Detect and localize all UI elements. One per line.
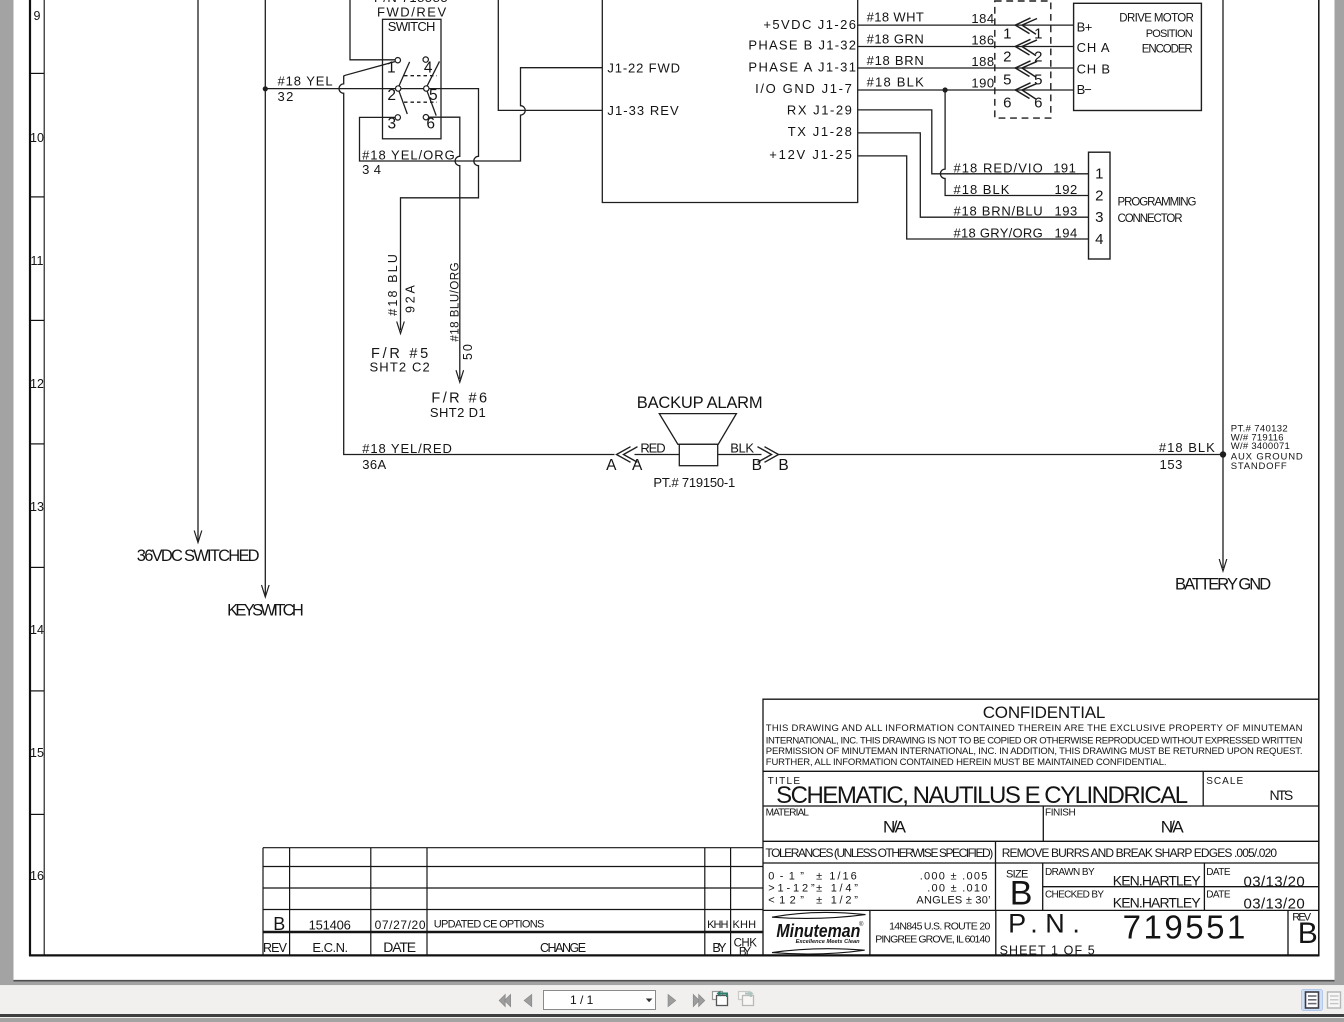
svg-text:BY: BY (712, 941, 727, 955)
svg-text:151406: 151406 (309, 918, 352, 933)
svg-text:1: 1 (1034, 25, 1043, 42)
svg-text:CH B: CH B (1077, 61, 1111, 76)
svg-text:#18 GRY/ORG: #18 GRY/ORG (954, 225, 1044, 240)
svg-text:BLK: BLK (730, 441, 754, 456)
svg-text:188: 188 (971, 54, 994, 69)
svg-text:CH A: CH A (1077, 40, 1110, 55)
svg-text:KEYSWITCH: KEYSWITCH (227, 602, 304, 620)
svg-text:#18 YEL/ORG: #18 YEL/ORG (362, 147, 455, 162)
svg-text:SHEET 1 OF 5: SHEET 1 OF 5 (1000, 943, 1095, 957)
svg-text:CHECKED BY: CHECKED BY (1045, 890, 1104, 901)
svg-text:B: B (752, 457, 763, 474)
svg-text:92A: 92A (404, 284, 418, 312)
svg-text:BATTERY GND: BATTERY GND (1175, 576, 1272, 594)
svg-text:3: 3 (388, 116, 397, 133)
svg-text:153: 153 (1160, 457, 1183, 472)
svg-text:2: 2 (1034, 48, 1043, 65)
svg-text:A: A (606, 457, 617, 474)
svg-text:CONNECTOR: CONNECTOR (1118, 213, 1183, 225)
svg-text:03/13/20: 03/13/20 (1244, 874, 1306, 891)
svg-text:186: 186 (971, 33, 994, 48)
svg-text:FURTHER, ALL INFORMATION CONTA: FURTHER, ALL INFORMATION CONTAINED HEREI… (766, 757, 1167, 768)
svg-text:MATERIAL: MATERIAL (766, 807, 810, 818)
svg-text:191: 191 (1053, 160, 1076, 175)
svg-text:PROGRAMMING: PROGRAMMING (1118, 197, 1197, 209)
svg-text:.00 ± .010: .00 ± .010 (927, 883, 988, 895)
svg-text:B−: B− (1077, 82, 1092, 97)
svg-text:6: 6 (1034, 94, 1043, 111)
svg-text:DATE: DATE (1206, 890, 1231, 901)
svg-text:SHT2 D1: SHT2 D1 (430, 405, 486, 420)
svg-text:+5VDC J1-26: +5VDC J1-26 (763, 17, 856, 32)
svg-text:4: 4 (424, 60, 433, 77)
svg-text:FINISH: FINISH (1045, 807, 1076, 818)
svg-text:Excellence Meets Clean: Excellence Meets Clean (796, 939, 861, 945)
svg-text:B+: B+ (1077, 20, 1093, 35)
svg-text:B: B (1010, 875, 1033, 913)
svg-text:6: 6 (426, 116, 435, 133)
svg-text:CHANGE: CHANGE (540, 941, 586, 955)
svg-text:POSITION: POSITION (1146, 28, 1193, 40)
svg-text:INTERNATIONAL, INC. THIS DRAWI: INTERNATIONAL, INC. THIS DRAWING IS NOT … (766, 735, 1303, 746)
svg-text:KEN.HARTLEY: KEN.HARTLEY (1113, 873, 1202, 889)
svg-text:15: 15 (30, 746, 44, 760)
svg-text:REMOVE BURRS AND BREAK SHARP E: REMOVE BURRS AND BREAK SHARP EDGES .005/… (1002, 846, 1278, 860)
svg-text:N/A: N/A (883, 817, 907, 836)
svg-text:193: 193 (1055, 204, 1078, 219)
svg-text:2: 2 (387, 87, 396, 104)
svg-text:2: 2 (1003, 48, 1012, 65)
svg-text:3: 3 (1095, 209, 1104, 226)
svg-text:6: 6 (1003, 94, 1012, 111)
svg-text:#18 BLK: #18 BLK (1159, 440, 1215, 455)
svg-text:B: B (778, 457, 789, 474)
svg-text:ANGLES ± 30’: ANGLES ± 30’ (916, 894, 991, 906)
svg-text:KHH: KHH (733, 919, 757, 931)
svg-text:E.C.N.: E.C.N. (312, 940, 348, 955)
svg-text:TOLERANCES (UNLESS OTHERWISE S: TOLERANCES (UNLESS OTHERWISE SPECIFIED) (765, 846, 993, 860)
svg-text:DRIVE MOTOR: DRIVE MOTOR (1119, 13, 1194, 25)
svg-text:A: A (632, 457, 643, 474)
svg-text:PERMISSION OF MINUTEMAN INTERN: PERMISSION OF MINUTEMAN INTERNATIONAL, I… (766, 746, 1303, 757)
svg-text:5: 5 (429, 87, 438, 104)
svg-text:J1-33 REV: J1-33 REV (607, 103, 679, 118)
svg-text:#18 BLU: #18 BLU (386, 254, 400, 316)
svg-text:CONFIDENTIAL: CONFIDENTIAL (983, 703, 1106, 722)
svg-text:#18 WHT: #18 WHT (867, 10, 925, 25)
svg-text:190: 190 (971, 76, 994, 91)
svg-text:194: 194 (1055, 225, 1078, 240)
svg-text:#18 BRN/BLU: #18 BRN/BLU (954, 204, 1044, 219)
svg-text:#18 BLK: #18 BLK (867, 74, 925, 89)
svg-text:03/13/20: 03/13/20 (1244, 896, 1306, 913)
svg-text:#18 BLU/ORG: #18 BLU/ORG (450, 262, 462, 342)
svg-text:NTS: NTS (1270, 787, 1294, 803)
svg-text:#18 BRN: #18 BRN (867, 53, 925, 68)
svg-text:Minuteman: Minuteman (776, 921, 860, 941)
svg-text:1: 1 (387, 60, 396, 77)
svg-text:DATE: DATE (383, 939, 416, 955)
svg-text:PT.# 719150-1: PT.# 719150-1 (653, 475, 735, 490)
svg-text:B: B (1298, 917, 1318, 950)
svg-text:14: 14 (30, 623, 44, 637)
svg-text:50: 50 (461, 344, 475, 360)
svg-text:#18 GRN: #18 GRN (867, 31, 925, 46)
svg-text:STANDOFF: STANDOFF (1231, 461, 1287, 472)
svg-text:THIS DRAWING AND ALL INFORMATI: THIS DRAWING AND ALL INFORMATION CONTAIN… (766, 723, 1303, 734)
svg-text:F/R #6: F/R #6 (431, 390, 487, 406)
svg-text:®: ® (859, 921, 864, 928)
svg-text:#18 YEL/RED: #18 YEL/RED (362, 441, 452, 456)
svg-text:DRAWN BY: DRAWN BY (1045, 867, 1095, 878)
svg-text:12: 12 (30, 377, 44, 391)
svg-text:#18 YEL: #18 YEL (278, 74, 333, 89)
svg-text:1: 1 (1095, 166, 1104, 183)
svg-text:W/# 3400071: W/# 3400071 (1231, 441, 1290, 452)
svg-text:+12V J1-25: +12V J1-25 (769, 147, 852, 162)
svg-text:± 1/16: ± 1/16 (816, 871, 857, 883)
svg-text:KHH: KHH (707, 919, 729, 931)
svg-text:5: 5 (1034, 71, 1043, 88)
svg-text:DATE: DATE (1206, 867, 1231, 878)
svg-text:REV: REV (263, 941, 288, 955)
svg-text:B: B (273, 914, 285, 934)
svg-text:36A: 36A (362, 457, 386, 472)
svg-text:07/27/20: 07/27/20 (375, 918, 426, 932)
svg-text:2: 2 (1095, 188, 1104, 205)
svg-text:36VDC SWITCHED: 36VDC SWITCHED (137, 547, 260, 565)
svg-text:#18 BLK: #18 BLK (954, 182, 1010, 197)
svg-text:11: 11 (31, 254, 44, 268)
svg-text:BY: BY (739, 946, 752, 958)
svg-text:14N845 U.S. ROUTE 20: 14N845 U.S. ROUTE 20 (889, 920, 991, 932)
svg-text:UPDATED CE OPTIONS: UPDATED CE OPTIONS (434, 919, 545, 931)
svg-text:192: 192 (1055, 182, 1078, 197)
svg-text:9: 9 (34, 9, 41, 23)
svg-text:13: 13 (30, 500, 44, 514)
svg-text:32: 32 (278, 89, 294, 104)
svg-text:SHT2 C2: SHT2 C2 (370, 359, 431, 374)
svg-text:SCALE: SCALE (1206, 776, 1243, 787)
svg-text:ENCODER: ENCODER (1142, 43, 1193, 55)
svg-text:.000 ± .005: .000 ± .005 (920, 871, 988, 883)
svg-text:PINGREE GROVE, IL 60140: PINGREE GROVE, IL 60140 (875, 934, 990, 946)
svg-text:RED: RED (640, 441, 666, 456)
svg-text:4: 4 (1095, 231, 1104, 248)
svg-text:FWD/REV: FWD/REV (377, 4, 447, 19)
svg-text:5: 5 (1003, 71, 1012, 88)
svg-text:BACKUP ALARM: BACKUP ALARM (637, 394, 763, 412)
svg-text:10: 10 (30, 131, 44, 145)
svg-text:SWITCH: SWITCH (388, 19, 436, 34)
svg-text:N/A: N/A (1161, 817, 1185, 836)
svg-text:184: 184 (971, 11, 994, 26)
svg-text:PHASE A J1-31: PHASE A J1-31 (748, 59, 856, 74)
svg-text:PHASE B J1-32: PHASE B J1-32 (748, 38, 856, 53)
svg-text:16: 16 (30, 869, 44, 883)
svg-text:#18 RED/VIO: #18 RED/VIO (954, 160, 1044, 175)
svg-text:1: 1 (1003, 25, 1012, 42)
svg-text:SCHEMATIC, NAUTILUS E CYLINDRI: SCHEMATIC, NAUTILUS E CYLINDRICAL (776, 782, 1188, 809)
svg-text:J1-22 FWD: J1-22 FWD (607, 61, 680, 76)
